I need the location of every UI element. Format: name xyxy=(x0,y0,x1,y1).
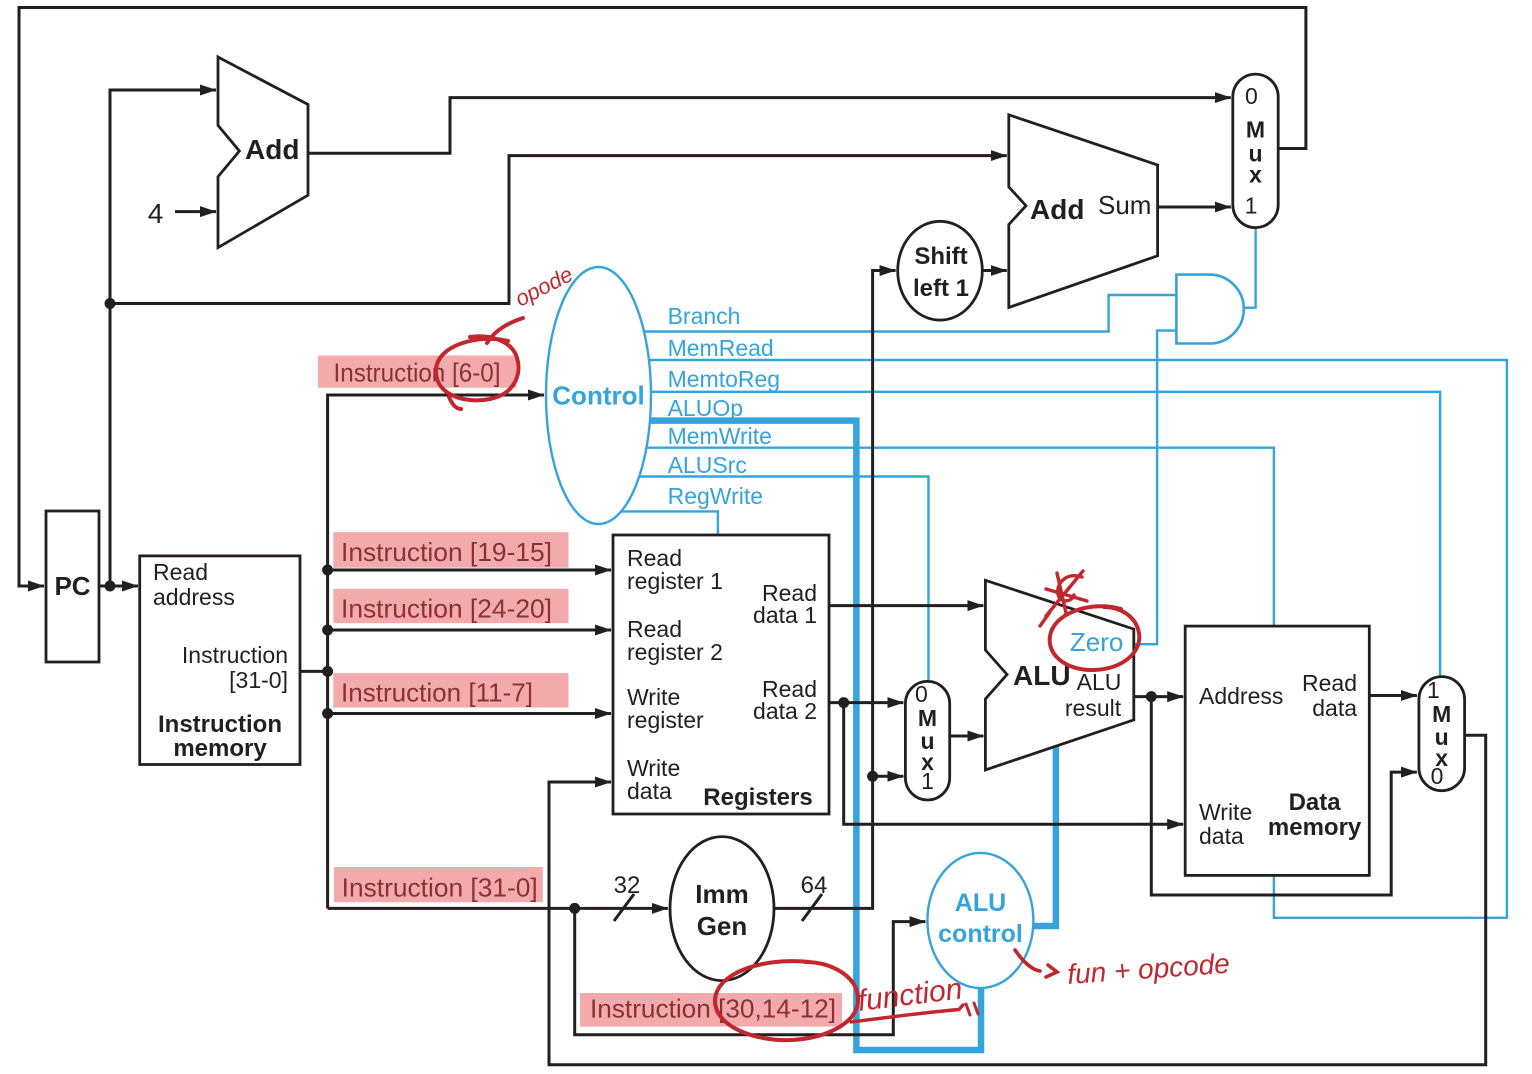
svg-text:register 2: register 2 xyxy=(627,639,723,665)
label MemWrite xyxy=(668,423,772,449)
svg-text:32: 32 xyxy=(614,872,641,899)
wire RegWrite control signal to Registers xyxy=(621,511,718,535)
registers file xyxy=(613,535,829,814)
wire Branch control signal to AND gate xyxy=(644,295,1176,332)
wire Read data 1 to ALU xyxy=(829,604,983,607)
svg-text:data 1: data 1 xyxy=(753,602,817,628)
annotation red ellipse around instruction 30 14-12 xyxy=(715,961,858,1040)
svg-text:data 2: data 2 xyxy=(753,698,817,724)
svg-text:Instruction [19-15]: Instruction [19-15] xyxy=(341,537,552,567)
svg-text:Read: Read xyxy=(1302,670,1357,696)
svg-text:[31-0]: [31-0] xyxy=(229,667,288,693)
adder Add PC+4 xyxy=(218,57,308,248)
svg-text:ALUOp: ALUOp xyxy=(668,395,743,421)
svg-text:Instruction [30,14-12]: Instruction [30,14-12] xyxy=(590,994,836,1024)
label MemRead xyxy=(668,335,774,361)
annotation handwritten fun plus opcode xyxy=(1066,948,1230,990)
highlight Instruction [19-15] xyxy=(333,532,568,568)
svg-text:register: register xyxy=(627,707,704,733)
node bus junction instruction output xyxy=(322,666,333,677)
node junction immediate to mux xyxy=(867,771,878,782)
gate AND (branch) xyxy=(1176,275,1243,344)
wire Add PC+4 result to Mux4 input 0 xyxy=(308,98,1231,154)
wire PC write-back loop from Mux4 output over top border to PC input xyxy=(19,8,1306,587)
svg-text:memory: memory xyxy=(1268,814,1362,841)
annotation curved arrow from ALU control xyxy=(1015,950,1057,977)
annotation handwritten opcode word xyxy=(511,261,577,311)
svg-text:memory: memory xyxy=(173,735,267,762)
annotation handwritten function word xyxy=(851,972,978,1022)
svg-text:ALUSrc: ALUSrc xyxy=(668,452,747,478)
svg-text:Add: Add xyxy=(1030,194,1084,225)
slash 32-bit width mark xyxy=(614,894,634,921)
node junction ALU result xyxy=(1146,691,1157,702)
wire PC to Instruction memory read address xyxy=(99,585,138,588)
svg-text:data: data xyxy=(1199,823,1244,849)
wire branch Add Sum to Mux4 input 1 xyxy=(1158,206,1231,209)
wire instruction [11-7] to Write register xyxy=(328,712,611,715)
wire MemtoReg control signal to write-back Mux select xyxy=(651,392,1440,677)
highlight Instruction [31-0] xyxy=(334,867,543,902)
wire MemRead control signal to Data memory xyxy=(649,360,1507,918)
wire instruction bus vertical to Control xyxy=(328,395,544,908)
wire ALU control output to ALU xyxy=(1033,746,1056,926)
svg-text:Gen: Gen xyxy=(697,911,748,941)
svg-text:Instruction [31-0]: Instruction [31-0] xyxy=(342,872,538,902)
svg-text:RegWrite: RegWrite xyxy=(668,483,763,509)
svg-text:0: 0 xyxy=(1431,763,1444,789)
oval Imm Gen xyxy=(670,837,774,981)
wire MemWrite control signal to Data memory xyxy=(647,448,1274,626)
annotation scribbled star above ALU xyxy=(1040,571,1087,626)
alu ALU xyxy=(985,580,1133,770)
svg-text:register 1: register 1 xyxy=(627,568,723,594)
oval Control xyxy=(546,267,651,524)
svg-text:Address: Address xyxy=(1199,683,1283,709)
wire constant 4 to Add xyxy=(175,210,216,213)
svg-text:MemRead: MemRead xyxy=(668,335,774,361)
wire Shift left 1 to branch Add xyxy=(982,269,1007,272)
wire ALU result to write-back Mux input 0 xyxy=(1151,697,1417,895)
label ALUOp xyxy=(668,395,743,421)
wire Zero flag from ALU to AND gate xyxy=(1134,331,1177,645)
label 32 bit width xyxy=(614,872,641,899)
oval Shift left 1 xyxy=(898,221,983,320)
svg-text:PC: PC xyxy=(54,571,90,601)
svg-text:Instruction: Instruction xyxy=(158,711,282,738)
wire write-back Mux output to Registers Write data xyxy=(549,735,1486,1065)
svg-text:left 1: left 1 xyxy=(913,275,969,302)
svg-text:Add: Add xyxy=(245,134,299,165)
svg-text:Sum: Sum xyxy=(1098,190,1151,220)
svg-text:x: x xyxy=(1249,161,1262,187)
wire Imm Gen output up to Shift left 1 xyxy=(774,271,896,909)
svg-text:ALU: ALU xyxy=(1077,669,1122,695)
svg-text:Shift: Shift xyxy=(914,243,967,270)
svg-text:ALU: ALU xyxy=(1013,660,1071,691)
node PC output junction xyxy=(105,581,116,592)
svg-text:M: M xyxy=(1246,117,1265,143)
svg-text:data: data xyxy=(627,778,672,804)
slash 64-bit width mark xyxy=(802,894,822,921)
wire PC value up to Add xyxy=(110,90,216,586)
node junction immediate input xyxy=(569,903,580,914)
svg-text:Registers: Registers xyxy=(703,784,812,811)
wire instruction [31-0] to Imm Gen xyxy=(328,907,668,910)
svg-text:1: 1 xyxy=(1427,677,1440,703)
svg-text:64: 64 xyxy=(801,872,828,899)
node bus junction instr 19-15 xyxy=(322,565,333,576)
wire Read data 2 to ALUSrc Mux input 0 xyxy=(829,701,903,704)
svg-text:Imm: Imm xyxy=(695,879,748,909)
svg-text:data: data xyxy=(1312,695,1357,721)
wire Read data 2 to Data memory Write data xyxy=(844,703,1183,825)
label RegWrite xyxy=(668,483,763,509)
wire Data memory Read data to write-back Mux input 1 xyxy=(1369,694,1417,697)
wire PC value to branch Add top input xyxy=(110,156,1007,304)
wire AND gate output to Mux4 select xyxy=(1244,228,1256,308)
svg-text:control: control xyxy=(938,920,1023,948)
mux ALUSrc xyxy=(905,681,949,800)
svg-text:MemtoReg: MemtoReg xyxy=(668,366,780,392)
svg-text:ALU: ALU xyxy=(955,889,1006,917)
svg-text:0: 0 xyxy=(915,681,928,707)
svg-text:Zero: Zero xyxy=(1070,627,1123,657)
svg-text:Data: Data xyxy=(1289,789,1342,816)
wire immediate to ALUSrc Mux input 1 xyxy=(873,775,904,778)
wire ALUSrc Mux output to ALU xyxy=(950,735,984,738)
control signal labels xyxy=(668,303,780,509)
highlight Instruction [6-0] xyxy=(318,356,516,388)
wire instruction [19-15] to Read register 1 xyxy=(328,569,611,572)
highlight Instruction [24-20] xyxy=(333,589,568,624)
adder Add branch target xyxy=(1009,115,1158,308)
wire ALUSrc control signal to Mux select xyxy=(639,477,928,682)
svg-text:Control: Control xyxy=(552,381,644,411)
label ALUSrc xyxy=(668,452,747,478)
svg-text:Instruction [6-0]: Instruction [6-0] xyxy=(334,357,501,387)
svg-text:result: result xyxy=(1065,695,1122,721)
oval ALU control xyxy=(927,853,1033,988)
node PC value branch junction xyxy=(105,298,116,309)
instruction memory xyxy=(140,556,300,765)
annotation red circle around Zero xyxy=(1050,606,1140,670)
data memory xyxy=(1185,626,1369,875)
svg-text:MemWrite: MemWrite xyxy=(668,423,772,449)
label 64 bit width xyxy=(801,872,828,899)
wire ALUOp control signal to ALU control xyxy=(650,421,981,1050)
wire instruction [24-20] to Read register 2 xyxy=(328,629,611,632)
label MemtoReg xyxy=(668,366,780,392)
mux write-back xyxy=(1419,677,1465,791)
wire Instruction memory output to bus xyxy=(300,670,328,673)
mux Mux4 (PC source) xyxy=(1233,74,1278,228)
svg-text:Instruction [11-7]: Instruction [11-7] xyxy=(341,677,533,707)
svg-text:Write: Write xyxy=(1199,799,1252,825)
node bus junction instr 11-7 xyxy=(322,708,333,719)
svg-text:0: 0 xyxy=(1245,83,1258,109)
highlight Instruction [30,14-12] xyxy=(580,993,842,1027)
svg-text:address: address xyxy=(153,584,235,610)
label constant 4 xyxy=(148,198,164,229)
wire instruction [30,14-12] to ALU control xyxy=(575,908,926,1034)
svg-text:1: 1 xyxy=(1245,193,1258,219)
wire ALU result to Data memory Address xyxy=(1134,695,1183,698)
svg-text:1: 1 xyxy=(921,768,934,794)
svg-text:Instruction [24-20]: Instruction [24-20] xyxy=(341,593,552,623)
highlight Instruction [11-7] xyxy=(333,673,568,707)
svg-text:Read: Read xyxy=(153,559,208,585)
annotation curved arrow to opcode xyxy=(487,318,523,343)
svg-text:Instruction: Instruction xyxy=(182,642,288,668)
node junction read data 2 xyxy=(838,697,849,708)
node bus junction instr 24-20 xyxy=(322,625,333,636)
svg-text:Branch: Branch xyxy=(668,303,741,329)
svg-text:4: 4 xyxy=(148,198,164,229)
label Branch xyxy=(668,303,741,329)
register PC xyxy=(46,511,99,662)
annotation red circle around [6-0] xyxy=(436,336,518,409)
